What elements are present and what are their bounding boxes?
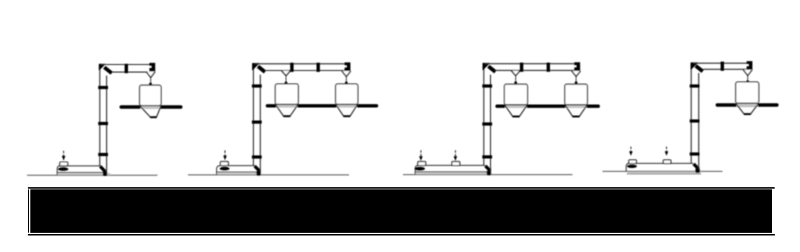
machine 2 weigh hopper 2 outlet <box>343 115 350 117</box>
machine 2 drop funnel 1 <box>282 71 291 76</box>
machine 3 head elbow diagonal <box>488 66 495 72</box>
machine 3 infeed hopper box 2 <box>452 162 460 166</box>
machine 2 mounting bar <box>267 104 376 107</box>
machine 4 discharge funnel <box>743 70 752 76</box>
machine 4 infeed arrow 1 <box>630 147 632 152</box>
machine 3 discharge funnel <box>572 71 581 77</box>
machine 1 boot inlet ellipse <box>58 167 68 171</box>
machine 1 arm top edge <box>101 64 154 66</box>
machine 1 weigh hopper body <box>140 85 162 105</box>
machine 2 weigh hopper 2 body <box>336 84 358 104</box>
machine 3 weigh hopper 1 bar shading <box>505 105 527 108</box>
machine 3 infeed hopper box 1 <box>418 162 426 166</box>
machine 3 arm top edge <box>485 63 580 65</box>
banner top rule <box>28 187 775 189</box>
machine 4 boot elbow <box>694 164 699 169</box>
machine 3 arm flange 2 <box>547 63 550 72</box>
banner left rule <box>28 189 29 232</box>
machine 2 weigh hopper 2 cone <box>336 105 358 117</box>
machine 1 infeed hopper box <box>60 162 68 166</box>
machine 1 boot elbow <box>100 166 105 171</box>
machine 2 boot drive blob <box>256 171 260 176</box>
machine 4 drop dot <box>746 80 749 83</box>
machine 2 column flange 1 <box>252 84 262 87</box>
machine 2 head elbow diagonal <box>258 66 265 72</box>
machine 3 infeed arrow 2 <box>454 150 456 156</box>
machine 2 ground line <box>188 174 349 176</box>
machine 2 discharge head <box>345 62 351 71</box>
machine 2 conveyor base bottom edge <box>217 171 261 173</box>
machine 3 head elbow corner <box>483 63 489 69</box>
machine 4 arm top edge <box>693 62 751 64</box>
machine 3 drop dot 2 <box>575 81 578 84</box>
machine 3 ground line <box>403 174 573 176</box>
machine 3 arm bottom edge <box>495 69 579 71</box>
machine 3 boot elbow <box>485 166 490 171</box>
banner bottom rule <box>28 234 775 236</box>
machine 3 weigh hopper 2 bar shading <box>566 105 587 108</box>
machine 4 column flange 3 <box>690 152 700 155</box>
machine 4 drop line <box>747 76 749 82</box>
machine 2 drop dot 1 <box>285 82 288 85</box>
machine 4 head elbow corner <box>691 63 697 69</box>
machine 3 drop line 1 <box>515 76 517 83</box>
machine 4 weigh hopper body <box>736 82 759 103</box>
machine 1 head elbow diagonal <box>104 67 111 73</box>
machine 3 weigh hopper 2 body <box>565 84 588 105</box>
machine 2 arm bottom edge <box>265 70 350 72</box>
machine 3 column flange 2 <box>482 122 492 125</box>
machine 4 conveyor base left cap <box>626 163 629 171</box>
machine 4 weigh hopper cone <box>736 103 759 114</box>
machine 1 column flange 3 <box>98 153 108 156</box>
machine 2 weigh hopper 1 cone <box>276 105 299 117</box>
machine 3 boot inlet ellipse <box>415 167 425 171</box>
machine 1 conveyor base top edge <box>68 165 101 167</box>
machine 3 drop funnel 1 <box>511 71 520 76</box>
machine 3 weigh hopper 2 outlet <box>573 116 580 118</box>
machine 2 infeed hopper box <box>220 162 228 166</box>
machine 1 column flange 2 <box>98 122 108 125</box>
machine 3 conveyor base top edge <box>426 164 486 166</box>
machine 1 weigh hopper outlet <box>150 116 156 118</box>
machine 2 boot elbow <box>255 166 260 171</box>
machine 2 conveyor base shading <box>217 173 261 175</box>
machine 3 boot drive blob <box>487 171 491 176</box>
machine 3 conveyor base left cap <box>415 165 418 174</box>
machine 2 boot inlet ellipse <box>220 167 230 171</box>
machine 3 discharge head <box>574 62 580 71</box>
machine 3 conveyor base bottom edge <box>415 171 491 173</box>
machine 4 column right edge <box>698 73 700 169</box>
machine 2 column flange 3 <box>252 155 262 158</box>
machine 4 conveyor base shading <box>627 172 701 174</box>
machine 2 conveyor base top edge <box>228 165 255 167</box>
machine 3 column right edge <box>490 75 492 171</box>
machine 1 weigh hopper cone <box>140 106 161 117</box>
banner black block <box>30 189 772 233</box>
machine 3 column flange 1 <box>482 84 492 87</box>
machine 2 head elbow corner <box>253 63 259 69</box>
machine 3 conveyor base shading <box>416 172 492 174</box>
machine 4 arm flange <box>721 62 724 71</box>
machine 2 arm flange 1 <box>290 63 293 72</box>
machine 4 weigh hopper bar shading <box>736 104 758 107</box>
machine 4 column left edge <box>690 64 692 163</box>
machine 1 arm flange <box>125 64 128 73</box>
machine 1 discharge head <box>149 63 155 72</box>
machine 3 infeed arrow 1 <box>420 150 422 156</box>
machine 4 ground line <box>603 170 723 172</box>
machine 2 weigh hopper 1 bar shading <box>276 105 297 108</box>
machine 4 conveyor base bottom edge <box>627 173 701 175</box>
machine 2 weigh hopper 1 body <box>275 84 298 104</box>
machine 1 boot drive blob <box>103 171 107 176</box>
machine 4 weigh hopper outlet <box>744 113 751 115</box>
machine 4 mounting bar <box>717 103 777 106</box>
machine 1 drop line <box>150 78 152 84</box>
machine 4 infeed arrow 2 <box>666 147 668 152</box>
machine 3 weigh hopper 1 cone <box>505 105 528 117</box>
machine 3 drop dot 1 <box>514 81 517 84</box>
machine 1 column left edge <box>99 65 101 166</box>
machine 1 conveyor base bottom edge <box>57 171 107 173</box>
machine 1 column right edge <box>106 76 108 172</box>
machine 1 infeed arrow <box>63 151 65 156</box>
machine 3 arm flange 1 <box>520 63 523 72</box>
machine 2 column right edge <box>259 75 261 172</box>
machine 1 arm bottom edge <box>112 71 154 73</box>
machine 1 head elbow corner <box>99 64 105 70</box>
machine 2 column left edge <box>252 64 254 165</box>
machine 2 discharge funnel <box>342 71 351 77</box>
machine 4 column flange 2 <box>690 119 700 122</box>
machine 1 column flange 1 <box>98 86 108 89</box>
machine 2 drop dot 2 <box>345 82 348 85</box>
machine 4 infeed hopper box 2 <box>663 160 671 164</box>
machine 4 conveyor base top edge <box>637 162 694 164</box>
machine 4 column flange 1 <box>690 84 700 87</box>
machine 1 ground line <box>27 174 158 176</box>
machine 3 weigh hopper 1 outlet <box>513 116 520 118</box>
machine 3 weigh hopper 1 body <box>504 84 527 105</box>
machine 4 discharge head <box>747 61 753 70</box>
machine 3 column left edge <box>483 64 485 165</box>
machine 3 weigh hopper 2 cone <box>565 105 587 117</box>
machine 2 drop line 1 <box>285 76 287 83</box>
machine 2 arm flange 2 <box>317 63 320 72</box>
machine 1 drop dot <box>149 83 152 86</box>
machine 4 infeed hopper box 1 <box>629 160 637 164</box>
machine 2 weigh hopper 1 outlet <box>283 115 290 117</box>
machine 1 conveyor base shading <box>58 173 111 175</box>
machine 2 weigh hopper 2 bar shading <box>336 105 357 108</box>
machine 2 column flange 2 <box>252 121 262 124</box>
machine 1 discharge funnel <box>146 72 155 78</box>
machine 2 drop line 2 <box>345 77 347 83</box>
machine 4 boot drive blob <box>695 168 699 173</box>
machine 1 mounting bar <box>121 105 180 109</box>
machine 3 column flange 3 <box>482 155 492 158</box>
machine 4 boot inlet ellipse <box>627 165 637 168</box>
machine 3 mounting bar <box>497 104 598 107</box>
machine 1 weigh hopper bar shading <box>140 106 160 109</box>
machine 2 arm top edge <box>255 63 350 65</box>
machine 4 arm bottom edge <box>703 68 751 70</box>
machine 3 drop line 2 <box>575 76 577 82</box>
machine 2 conveyor base left cap <box>217 166 221 175</box>
machine 1 conveyor base left cap <box>57 166 60 175</box>
machine 4 head elbow diagonal <box>696 66 703 72</box>
machine 2 infeed arrow <box>224 150 226 155</box>
